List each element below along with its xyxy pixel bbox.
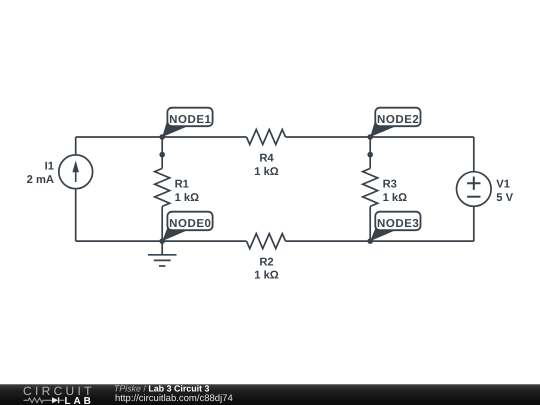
node NODE3 badge bbox=[370, 212, 420, 241]
svg-text:2 mA: 2 mA bbox=[27, 174, 54, 186]
wire R1 bottom lead bbox=[161, 206, 163, 241]
wire bottom-right horizontal from R2 right to V1 corner bbox=[286, 240, 474, 242]
svg-text:1 kΩ: 1 kΩ bbox=[175, 192, 200, 204]
resistor R2 bbox=[247, 234, 286, 249]
svg-text:R4: R4 bbox=[259, 153, 274, 165]
wire right vertical above V1 bbox=[473, 137, 475, 172]
junction dot NODE3 bbox=[367, 238, 373, 244]
node NODE0 badge bbox=[162, 212, 212, 241]
current source I1 bbox=[59, 155, 93, 189]
junction dot NODE2 bbox=[367, 134, 373, 140]
ground bbox=[148, 241, 177, 266]
wire top-right horizontal from R4 right to V1 corner bbox=[286, 136, 474, 138]
svg-text:R3: R3 bbox=[383, 178, 397, 190]
svg-text:http://circuitlab.com/c88dj74: http://circuitlab.com/c88dj74 bbox=[115, 393, 233, 404]
svg-text:NODE0: NODE0 bbox=[169, 218, 211, 230]
labels R1 bbox=[175, 178, 200, 204]
wire left vertical above I1 bbox=[75, 137, 77, 155]
svg-text:1 kΩ: 1 kΩ bbox=[254, 166, 279, 178]
labels R4 bbox=[254, 153, 279, 178]
svg-text:V1: V1 bbox=[496, 179, 510, 191]
labels R3 bbox=[383, 178, 408, 204]
voltage source V1 bbox=[457, 172, 492, 207]
wire R3 bottom lead bbox=[369, 206, 371, 241]
labels I1 bbox=[27, 161, 54, 186]
svg-text:R1: R1 bbox=[175, 178, 189, 190]
wire R3 top lead bbox=[369, 137, 371, 168]
node NODE2 badge bbox=[370, 108, 420, 137]
junction dot NODE1 bbox=[159, 134, 165, 140]
resistor R1 bbox=[155, 168, 170, 206]
wire bottom-left horizontal from I1 bottom to R2 left bbox=[76, 240, 247, 242]
wire R1 top lead bbox=[161, 137, 163, 168]
svg-text:NODE1: NODE1 bbox=[169, 114, 211, 126]
svg-text:1 kΩ: 1 kΩ bbox=[254, 270, 279, 282]
node NODE1 badge bbox=[162, 108, 212, 137]
logo resistor-diode glyph bbox=[24, 397, 65, 403]
wire left vertical below I1 bbox=[75, 190, 77, 242]
svg-text:I1: I1 bbox=[45, 161, 54, 173]
terminal dot R1 top bbox=[159, 152, 165, 158]
wire top-left horizontal from I1 top to R4 left bbox=[76, 136, 247, 138]
resistor R4 bbox=[247, 130, 286, 145]
svg-text:NODE2: NODE2 bbox=[377, 114, 419, 126]
resistor R3 bbox=[363, 168, 378, 206]
svg-text:R2: R2 bbox=[259, 256, 273, 268]
svg-text:5 V: 5 V bbox=[496, 192, 513, 204]
svg-text:1 kΩ: 1 kΩ bbox=[383, 192, 408, 204]
wire right vertical below V1 bbox=[473, 207, 475, 242]
svg-text:NODE3: NODE3 bbox=[377, 218, 419, 230]
terminal dot R3 top bbox=[367, 152, 373, 158]
labels R2 bbox=[254, 256, 279, 281]
junction dot NODE0 bbox=[159, 238, 165, 244]
labels V1 bbox=[496, 179, 513, 204]
svg-text:LAB: LAB bbox=[65, 396, 94, 405]
